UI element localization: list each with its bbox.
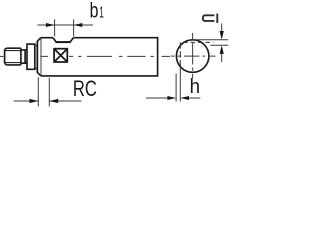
RC dimension [14,77,82,106]
threaded stud tip [5,48,7,65]
neck between flange and body [35,46,38,69]
svg-text:1: 1 [99,4,104,21]
rotated h label (hand drawn) [203,14,217,23]
thread root lines [6,51,21,63]
flat notch on top of body [53,38,73,42]
flange [27,44,35,69]
h bottom dimension [146,67,200,102]
h top-right dimension [193,24,228,63]
svg-text:b: b [90,0,99,22]
body with chamfered left corners [37,38,157,76]
chamfer end line [40,38,42,75]
crosshair centerlines [171,33,216,79]
flat symbol square with diagonals [54,49,67,62]
b1 dimension [38,19,94,36]
thread outer edges [6,48,21,65]
svg-text:RC: RC [73,76,97,101]
svg-text:h: h [190,76,200,98]
centerline main axis [0,55,170,57]
neck [21,50,27,63]
hidden flat chord left [179,42,181,67]
hidden flat chord top [183,41,213,43]
circle [176,40,209,73]
